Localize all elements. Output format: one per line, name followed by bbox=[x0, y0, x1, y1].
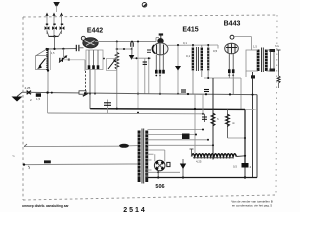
svg-text:omroep distrib. aansluiting aa: omroep distrib. aansluiting aar bbox=[22, 204, 69, 208]
series capacitor on vertical bbox=[107, 100, 109, 114]
svg-text:0,5: 0,5 bbox=[213, 49, 218, 53]
lighter bus below bbox=[48, 112, 203, 115]
long vertical wire G2 bbox=[116, 42, 118, 109]
grommet bbox=[142, 3, 147, 8]
tube E415 body bbox=[153, 43, 168, 55]
tube E415 top cap bbox=[159, 33, 163, 35]
block left edge bbox=[202, 94, 204, 114]
svg-text:4,25: 4,25 bbox=[196, 160, 202, 164]
svg-text:1,5: 1,5 bbox=[253, 45, 257, 49]
svg-text:0,5: 0,5 bbox=[233, 165, 237, 169]
IF transformer core bbox=[195, 47, 197, 71]
svg-text:B443: B443 bbox=[224, 21, 241, 28]
ground bus bbox=[22, 92, 257, 94]
tube B443 top cap bbox=[230, 35, 234, 39]
chassis dashed border right bbox=[276, 15, 277, 195]
IF transformer secondary coil bbox=[201, 48, 203, 71]
svg-text:1,5: 1,5 bbox=[36, 97, 41, 101]
svg-text:1,5: 1,5 bbox=[51, 51, 55, 55]
capacitor C9 bbox=[167, 162, 170, 166]
wire switch to grid cap bbox=[46, 48, 76, 51]
svg-text:2514: 2514 bbox=[123, 207, 147, 212]
transformer tap to rectifier bbox=[148, 149, 165, 151]
wire bias row bbox=[204, 77, 241, 79]
wire output return bbox=[252, 72, 254, 178]
wire L1 to ground bus bbox=[47, 70, 49, 94]
wire screen row bbox=[117, 48, 132, 50]
power transformer T2 primary bbox=[138, 131, 141, 183]
chassis dashed border left bbox=[22, 17, 24, 200]
coil L3 bbox=[207, 48, 209, 71]
tuned circuit L1 box bbox=[36, 56, 48, 70]
wire E415 anode row bbox=[168, 44, 219, 46]
output transformer core bbox=[261, 48, 263, 73]
wire E442 anode to E415 grid cap bbox=[95, 41, 156, 43]
output transformer primary bbox=[257, 50, 260, 72]
output transformer secondary bbox=[265, 50, 268, 72]
svg-text:h k: h k bbox=[275, 44, 280, 48]
coil L1 bbox=[46, 51, 48, 70]
tube E415 legs bbox=[155, 55, 157, 70]
mains wire upper bbox=[24, 145, 119, 147]
tube B443 body bbox=[225, 43, 239, 54]
vertical wire V2 bbox=[148, 58, 150, 93]
capacitor C7 on vertical bbox=[144, 58, 146, 93]
padder box with arrow bbox=[107, 59, 117, 71]
tap to rectifier bbox=[148, 159, 152, 161]
vertical feed wire bbox=[194, 94, 196, 153]
chassis dashed border top bbox=[23, 15, 277, 17]
reservoir capacitor bbox=[242, 163, 249, 168]
power transformer secondary bbox=[145, 131, 148, 183]
variable capacitor arrow bbox=[39, 59, 46, 67]
resistor R5 on vertical bbox=[212, 78, 214, 160]
chassis dashed border bottom bbox=[23, 195, 275, 200]
filter choke bbox=[192, 154, 237, 157]
svg-text:0,1: 0,1 bbox=[186, 54, 191, 58]
resistor R7 bbox=[277, 76, 280, 83]
series capacitor C5 bbox=[130, 42, 132, 47]
band switch contact arrows bbox=[46, 13, 49, 17]
B+ dark bus bbox=[90, 108, 245, 111]
grid leak diode D1 bbox=[177, 45, 179, 94]
heater return wire bbox=[148, 171, 181, 173]
cap block bbox=[182, 134, 190, 140]
electrolytic arrow C6 bbox=[129, 55, 135, 60]
caps to bus right section bbox=[181, 89, 186, 91]
electrolytic diode symbol bbox=[182, 159, 184, 178]
rectifier tube 506 bbox=[154, 160, 165, 171]
tube E442 electrode box bbox=[86, 50, 103, 70]
band switch merge wires bbox=[47, 31, 62, 36]
bottom HT bus bbox=[147, 177, 257, 179]
band switch contacts bbox=[45, 24, 65, 31]
tube B443 legs bbox=[228, 54, 230, 70]
wire AVC row bbox=[132, 57, 151, 59]
svg-text:nt: nt bbox=[232, 121, 235, 125]
vertical wire V1 bbox=[137, 42, 139, 109]
resistor on bus bbox=[79, 91, 86, 94]
wire B443 cap to output transformer bbox=[234, 36, 252, 38]
antenna bbox=[53, 2, 60, 6]
IF transformer T1 primary coil bbox=[192, 48, 194, 71]
mains switch bbox=[44, 160, 51, 163]
bus corner down right bbox=[256, 95, 258, 178]
power transformer core bbox=[141, 129, 143, 184]
svg-text:4,25: 4,25 bbox=[25, 86, 31, 90]
tube E442 body bbox=[83, 38, 99, 48]
wire E442 cathode to ground crossing bbox=[89, 70, 91, 109]
cap on lower bus end bbox=[204, 114, 206, 122]
dark vertical to reservoir cap bbox=[244, 109, 246, 163]
svg-text:~: ~ bbox=[12, 154, 15, 160]
IF transformer connections bbox=[192, 45, 194, 47]
resistor R6 on vertical bbox=[227, 109, 229, 138]
output transformer left loop bbox=[246, 50, 252, 71]
band switch wires bbox=[46, 15, 48, 34]
junction cluster left bbox=[27, 91, 31, 95]
fuse bbox=[119, 144, 129, 148]
svg-text:E442: E442 bbox=[87, 28, 103, 35]
svg-text:0,1: 0,1 bbox=[183, 41, 187, 45]
svg-text:506: 506 bbox=[155, 184, 164, 190]
ground symbol bbox=[17, 92, 22, 96]
speaker terminals bbox=[266, 49, 270, 51]
resistor R1 zigzag bbox=[115, 52, 119, 69]
trimmer capacitor bbox=[62, 49, 64, 58]
coupling capacitor C1 bbox=[75, 45, 77, 51]
svg-text:E415: E415 bbox=[182, 27, 198, 34]
wire trimmer to bus bbox=[63, 59, 85, 61]
svg-text:en condensator, zie het pag. 5: en condensator, zie het pag. 5 bbox=[232, 204, 273, 208]
mains wire lower bbox=[24, 163, 138, 166]
transformer taps bbox=[148, 129, 204, 131]
